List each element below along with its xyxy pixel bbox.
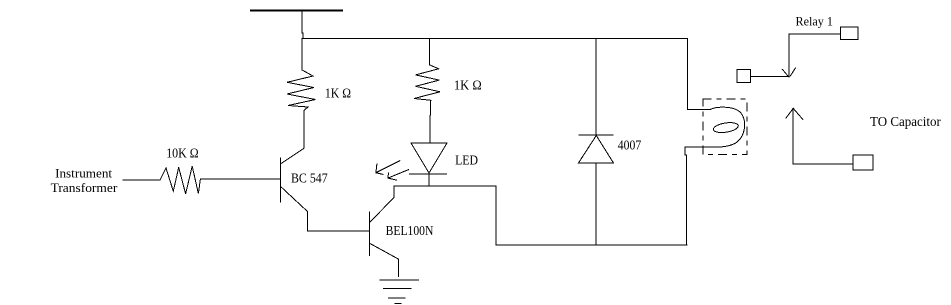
svg-text:Relay 1: Relay 1 [796,14,833,29]
svg-text:10K Ω: 10K Ω [166,146,199,161]
resistor R2 10K [160,166,200,194]
svg-text:LED: LED [455,153,478,168]
svg-text:BEL100N: BEL100N [386,223,434,238]
terminal box relay NO contact [840,27,857,40]
wire Q1 emitter to Q2 base [308,230,370,232]
resistor R1 1K (collector load) [287,39,316,111]
terminal box to capacitor [853,155,873,170]
svg-text:Instrument: Instrument [55,166,112,181]
wire arrow to terminal box [793,163,853,165]
svg-text:1K Ω: 1K Ω [454,78,482,93]
svg-text:1K Ω: 1K Ω [325,85,351,100]
wire R2 to Q1 base [200,178,279,180]
terminal box relay common [737,70,750,83]
wire top rail [302,38,687,40]
wire VCC to top rail [301,10,304,39]
wire top rail to D2 [595,39,597,135]
wire top rail to relay coil [688,39,711,110]
wire down right of LED rail [495,186,497,245]
diode D2 4007 [578,135,613,245]
wire relay arm top [789,34,840,77]
arrow to capacitor [786,108,803,164]
ground [380,280,419,303]
wire bottom rail [496,244,687,246]
resistor R3 1K (LED branch) [414,39,440,143]
svg-text:TO Capacitor: TO Capacitor [870,114,941,129]
relay arm arrowhead [782,68,795,77]
wire input to R2 [123,179,160,181]
relay coil K1 [706,107,745,147]
transistor Q2 BEL100N [370,186,399,276]
svg-text:BC 547: BC 547 [291,170,328,185]
LED light arrow 1 [376,161,400,175]
svg-text:4007: 4007 [618,138,642,153]
svg-text:Transformer: Transformer [51,180,118,195]
LED light arrow 2 [388,170,409,181]
transistor Q1 BC547 [281,111,308,232]
wire relay coil to bottom rail [685,147,710,245]
wire relay common to arm [751,76,789,78]
power bar VCC [251,9,342,11]
LED D1 [410,143,447,186]
wire Q2 collector rail [394,185,496,187]
relay coil boundary (dash-dot box) [703,99,747,154]
label Instrument Transformer [51,166,118,196]
